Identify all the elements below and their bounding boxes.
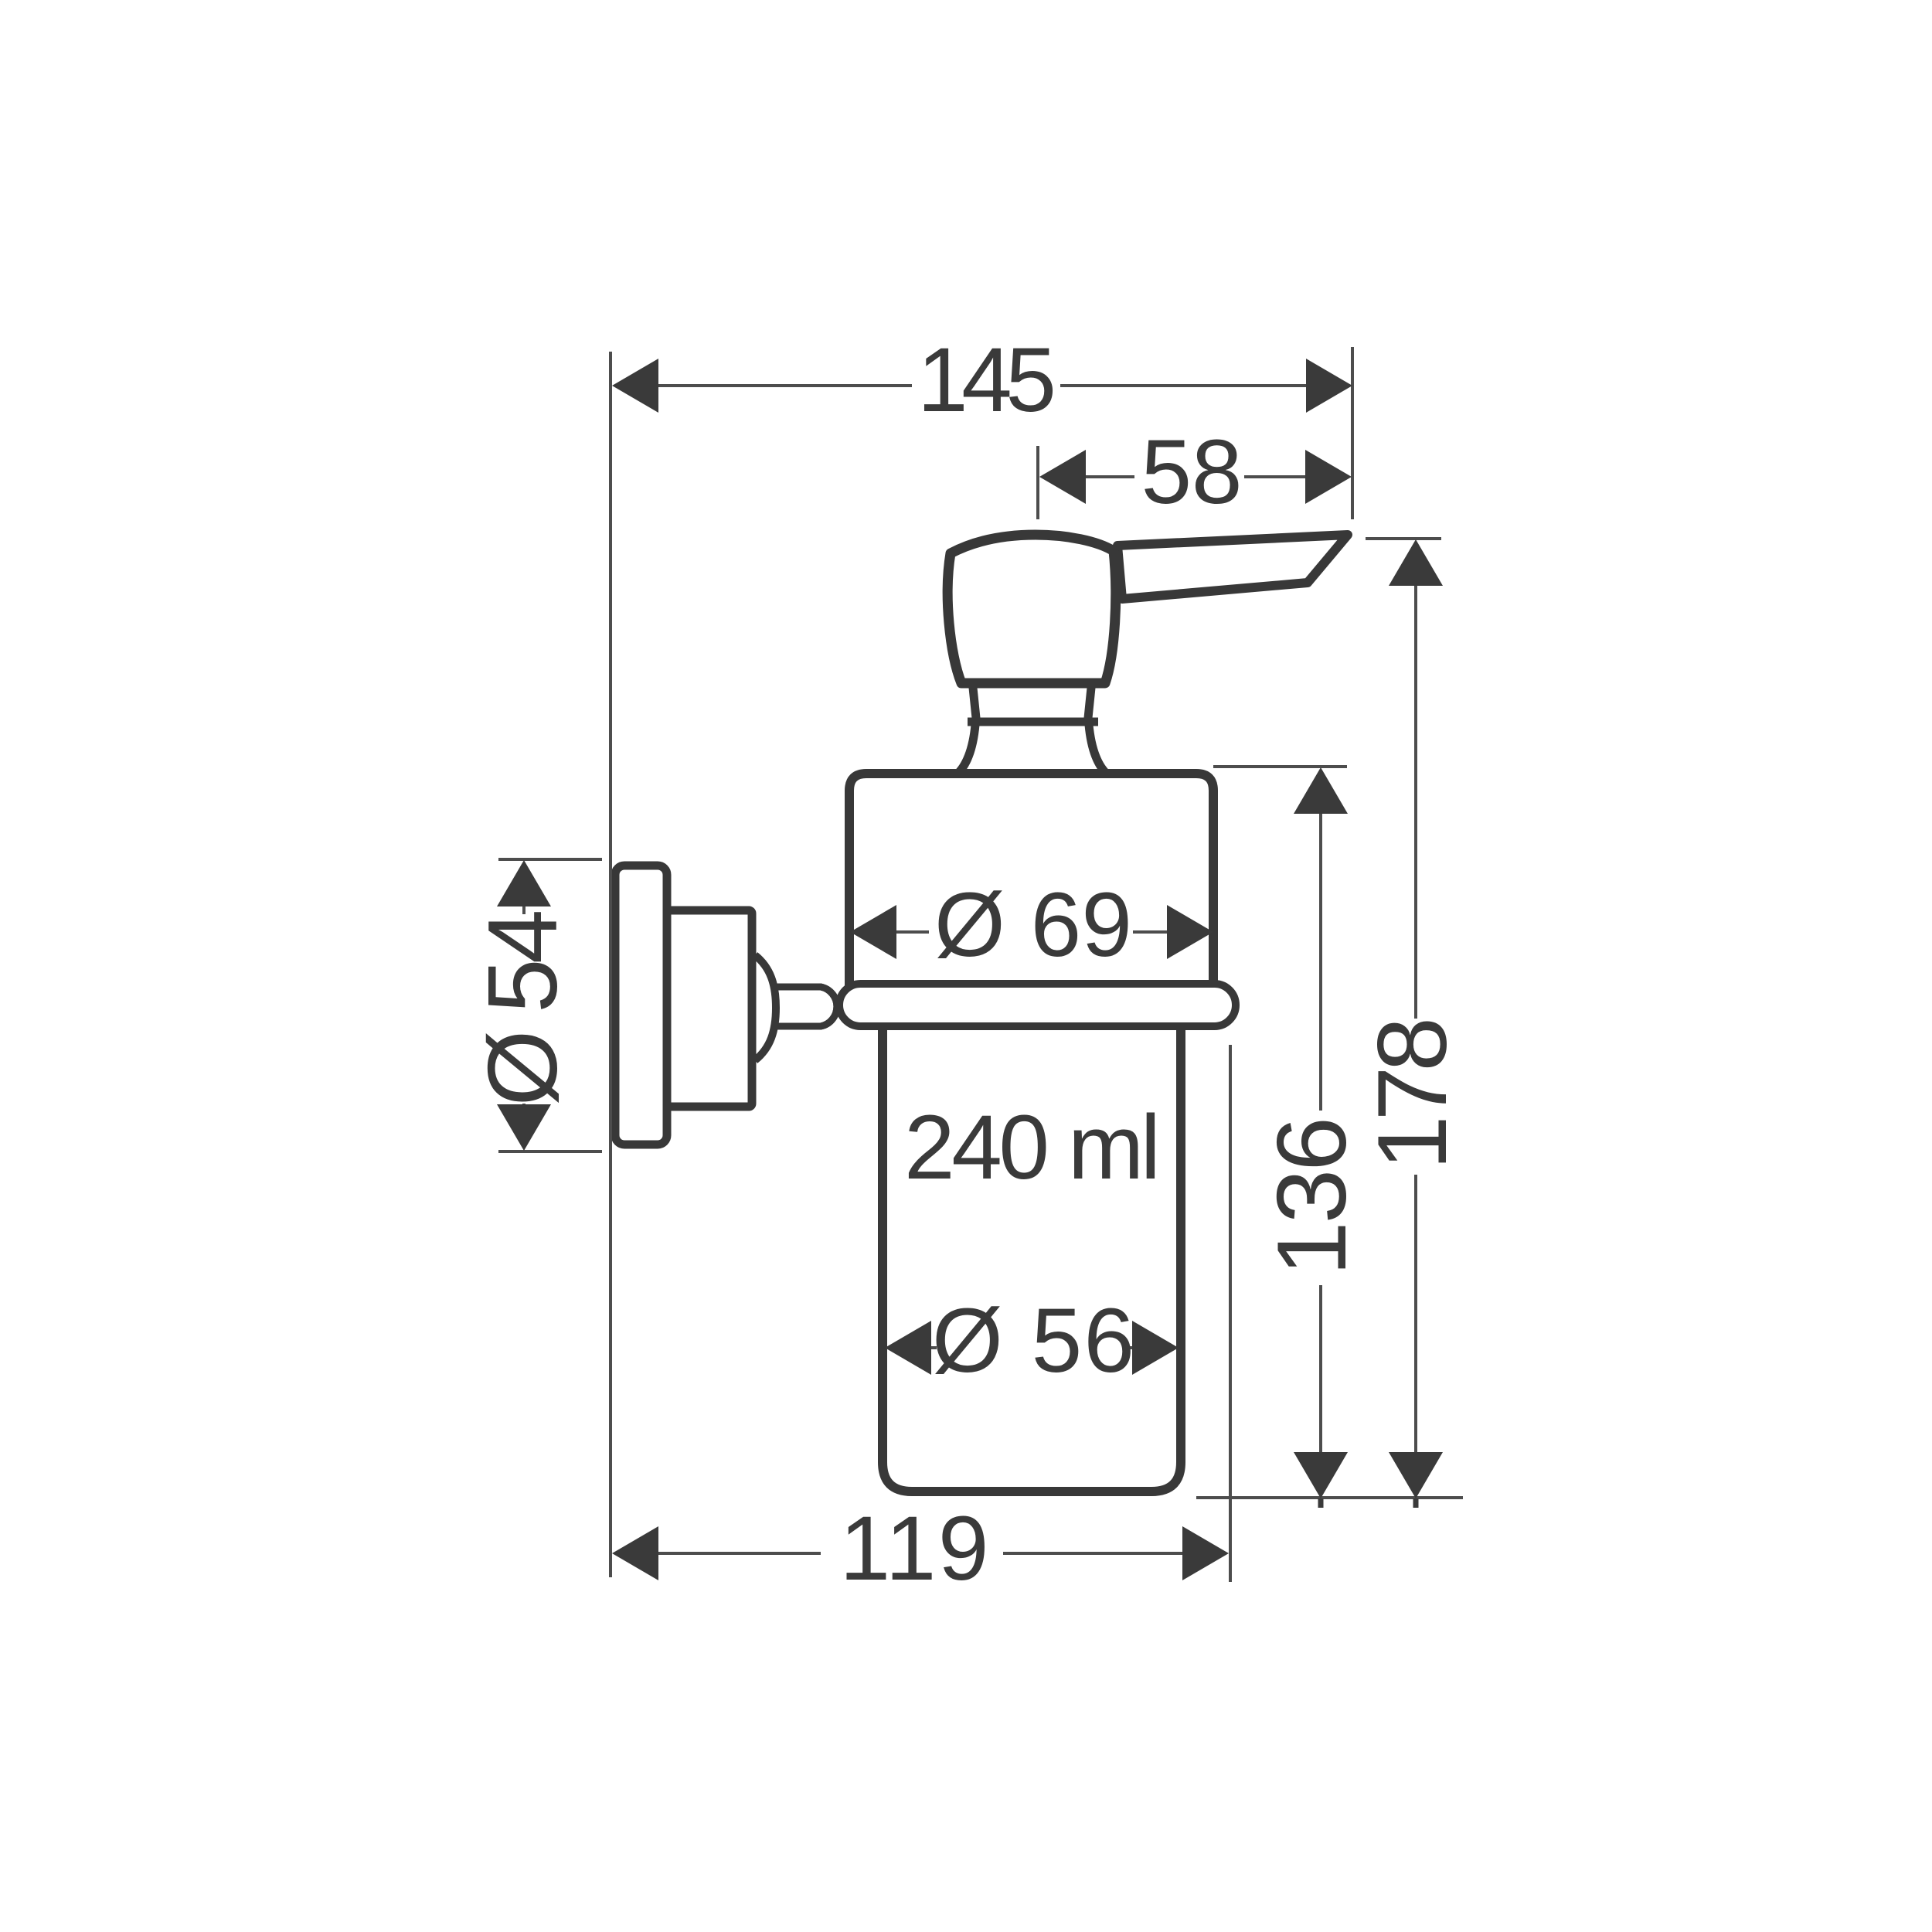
svg-text:Ø 54: Ø 54 <box>468 912 577 1106</box>
svg-text:136: 136 <box>1257 1120 1366 1276</box>
svg-text:178: 178 <box>1357 1020 1467 1170</box>
svg-text:Ø 69: Ø 69 <box>934 874 1129 976</box>
svg-text:Ø 56: Ø 56 <box>932 1290 1131 1392</box>
svg-text:119: 119 <box>840 1498 986 1600</box>
svg-text:240 ml: 240 ml <box>904 1097 1158 1199</box>
svg-text:145: 145 <box>917 329 1053 431</box>
